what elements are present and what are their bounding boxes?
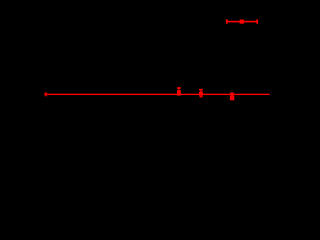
data point P2 marker (177, 90, 181, 96)
data point P5 left error cap (226, 19, 228, 23)
data point P5 horizontal error bar (227, 21, 258, 23)
data point P3 upper error cap (199, 89, 203, 91)
data point P3 lower error cap (200, 96, 203, 98)
data point P2 upper error cap (177, 87, 181, 89)
data point P3 error bar stem (200, 90, 201, 92)
data point P2 error bar stem (178, 89, 179, 91)
data point P4 upper error cap (230, 93, 234, 94)
model line (47, 94, 270, 95)
data point P4 error bar stem (231, 94, 232, 96)
data point P3 marker (199, 92, 203, 96)
data point P5 right error cap (256, 19, 258, 23)
data point P1 marker (45, 93, 47, 97)
data point P5 marker (240, 20, 244, 24)
data point P4 marker (230, 95, 234, 100)
